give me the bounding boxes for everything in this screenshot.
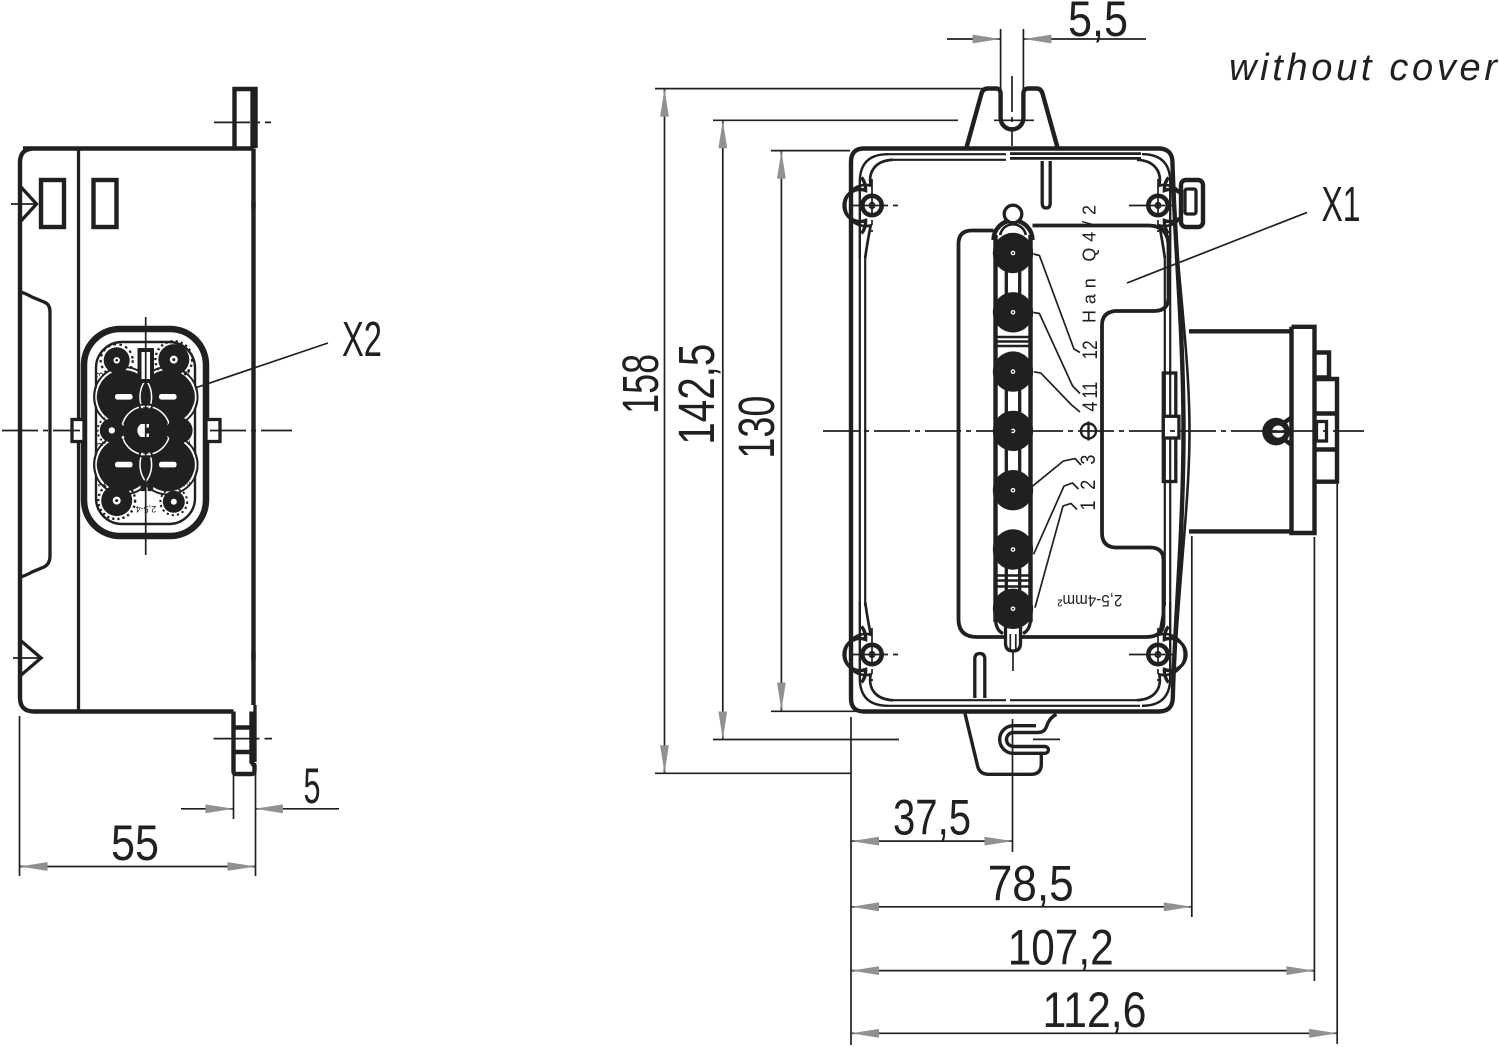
top mounting tab (left view) <box>235 89 256 148</box>
contact 1 <box>993 233 1033 273</box>
dimension 130 <box>728 151 856 712</box>
svg-text:3: 3 <box>1077 455 1100 465</box>
bottom DIN tab (left view) <box>234 712 255 775</box>
X2 vertical centerline <box>145 317 147 555</box>
svg-text:X2: X2 <box>342 313 382 367</box>
link c6-c7 <box>1006 564 1019 594</box>
divider between c2-c3 <box>994 337 1033 346</box>
leader X2 <box>195 343 328 388</box>
boss top-left <box>844 154 901 258</box>
ext 78,5 <box>1191 536 1193 917</box>
upper step block <box>1315 353 1330 378</box>
bottom hook <box>965 714 1060 775</box>
svg-text:2: 2 <box>1077 480 1100 490</box>
svg-text:X1: X1 <box>1322 178 1361 232</box>
link c4-c5 <box>1006 445 1019 476</box>
boss bottom-right <box>1129 602 1186 706</box>
right side clip tab <box>1181 180 1203 227</box>
bottom dimensions group <box>851 484 1337 1045</box>
svg-text:1: 1 <box>96 482 108 488</box>
dimension 158 <box>612 89 984 774</box>
pilot pin bottom-right <box>160 488 187 515</box>
inner rim left lines <box>860 256 865 606</box>
dimension 37,5 <box>851 840 1013 842</box>
centerline of bottom tab <box>214 738 273 740</box>
svg-text:37,5: 37,5 <box>893 790 971 846</box>
contact 6 <box>993 529 1033 569</box>
svg-text:112,6: 112,6 <box>1043 982 1147 1038</box>
X2 connector face <box>2 317 292 555</box>
svg-text:1: 1 <box>1077 501 1100 511</box>
inner face edge line <box>77 150 80 710</box>
svg-text:4: 4 <box>181 370 193 376</box>
leader 11 <box>1034 313 1081 394</box>
vent slot 2 <box>94 180 117 227</box>
svg-text:2,5-4mm²: 2,5-4mm² <box>1057 591 1122 609</box>
contact 7 <box>993 589 1033 629</box>
centerline of top tab <box>214 121 271 123</box>
leader 12 <box>1034 254 1081 353</box>
X2 right ear <box>206 420 220 442</box>
svg-text:55: 55 <box>111 815 159 871</box>
X1 label <box>1127 178 1361 283</box>
X2 inner rounded rect <box>96 342 195 524</box>
contact 2 <box>993 292 1033 332</box>
ext 107,2 <box>1313 537 1315 981</box>
key slot top center <box>140 350 153 381</box>
svg-text:11: 11 <box>1079 382 1102 399</box>
large contacts group <box>94 367 198 494</box>
X2 left ear <box>72 420 84 442</box>
ext 112,6 <box>1336 484 1338 1044</box>
dimension 55 (left view) <box>20 716 256 876</box>
main housing outer outline <box>851 149 1184 712</box>
left recess edge <box>20 292 50 577</box>
svg-text:12: 12 <box>1079 340 1102 359</box>
svg-text:158: 158 <box>612 354 669 414</box>
bracket vertical centerline <box>1011 76 1013 146</box>
contact 4 <box>993 411 1033 451</box>
dimension 5,5 (top) <box>947 0 1146 117</box>
terminal number leaders <box>1031 205 1123 609</box>
dimension 5 (left view) <box>181 758 339 876</box>
terminal strip <box>993 205 1033 671</box>
svg-text:5,5: 5,5 <box>1068 0 1128 47</box>
left extension line <box>850 717 852 1045</box>
svg-text:78,5: 78,5 <box>988 856 1074 912</box>
contact 5 <box>993 470 1033 510</box>
svg-text:4: 4 <box>1079 401 1102 411</box>
side pin left <box>98 416 126 444</box>
svg-text:3: 3 <box>94 372 106 378</box>
leader 4 <box>1034 372 1080 412</box>
knurled pin top-right <box>155 341 192 378</box>
hook centerline <box>1033 738 1060 740</box>
inner compartment cavity outline <box>959 226 1169 638</box>
svg-text:2: 2 <box>181 440 193 446</box>
ext 37,5 <box>1012 719 1014 852</box>
main right block <box>1315 379 1338 482</box>
inner rim top lines <box>888 154 1006 160</box>
svg-text:107,2: 107,2 <box>1008 920 1114 976</box>
strip top cap <box>994 221 1033 241</box>
bottom guide pin <box>975 654 985 699</box>
vent slot 1 <box>41 180 64 227</box>
top guide pin <box>1042 161 1050 208</box>
dimension 78,5 <box>851 906 1192 908</box>
flange screw head <box>1262 418 1290 446</box>
boss bottom-left <box>844 602 901 706</box>
svg-text:1: 1 <box>94 441 106 447</box>
lens bulge upper on right edge <box>251 184 256 226</box>
centerline notch keyhole <box>1317 422 1327 442</box>
dimension 107,2 <box>851 970 1314 972</box>
housing right edge second line <box>1176 232 1190 642</box>
main horizontal centerline <box>823 430 1364 432</box>
lens bulge lower on right edge <box>251 636 256 676</box>
lower latch arrow on left edge <box>20 640 41 676</box>
left view horizontal centerline <box>2 430 80 432</box>
bottom coding tabs <box>141 481 147 492</box>
inner rim bottom lines <box>888 700 1140 706</box>
center screw symbol <box>1081 424 1096 439</box>
side pin right <box>167 417 193 443</box>
svg-text:2: 2 <box>181 481 193 487</box>
svg-text:130: 130 <box>728 396 785 459</box>
contact 3 <box>993 351 1033 391</box>
link c3-c4 <box>1006 386 1019 416</box>
pilot pin top-left <box>101 344 133 376</box>
cable flange body <box>1189 327 1337 533</box>
dimension 142,5 <box>668 120 1034 739</box>
leader 3 <box>1031 459 1081 488</box>
svg-text:142,5: 142,5 <box>668 344 725 445</box>
housing body outline (left view) <box>20 149 254 712</box>
link c1-c2 <box>1006 268 1019 298</box>
contact slots <box>115 394 133 400</box>
inner rim right lines <box>1165 256 1170 606</box>
upper latch arrow on left edge <box>20 186 37 222</box>
strip bottom cap <box>996 618 1031 634</box>
svg-text:5: 5 <box>304 758 321 814</box>
strip side bars <box>996 235 1031 622</box>
X2 outer housing rounded rect <box>84 329 206 536</box>
leader 1 <box>1035 504 1077 608</box>
flange plate <box>1292 327 1315 533</box>
dimension 112,6 <box>851 1032 1337 1034</box>
top mounting bracket <box>967 89 1058 148</box>
X2 label <box>195 313 382 388</box>
leader 2 <box>1034 483 1079 554</box>
knurled pin bottom-left <box>98 482 135 519</box>
divider between c5-c6 <box>994 576 1033 587</box>
right wall pocket <box>1163 373 1179 482</box>
tiny insert digits <box>94 370 193 514</box>
boss top-right <box>1129 154 1186 258</box>
